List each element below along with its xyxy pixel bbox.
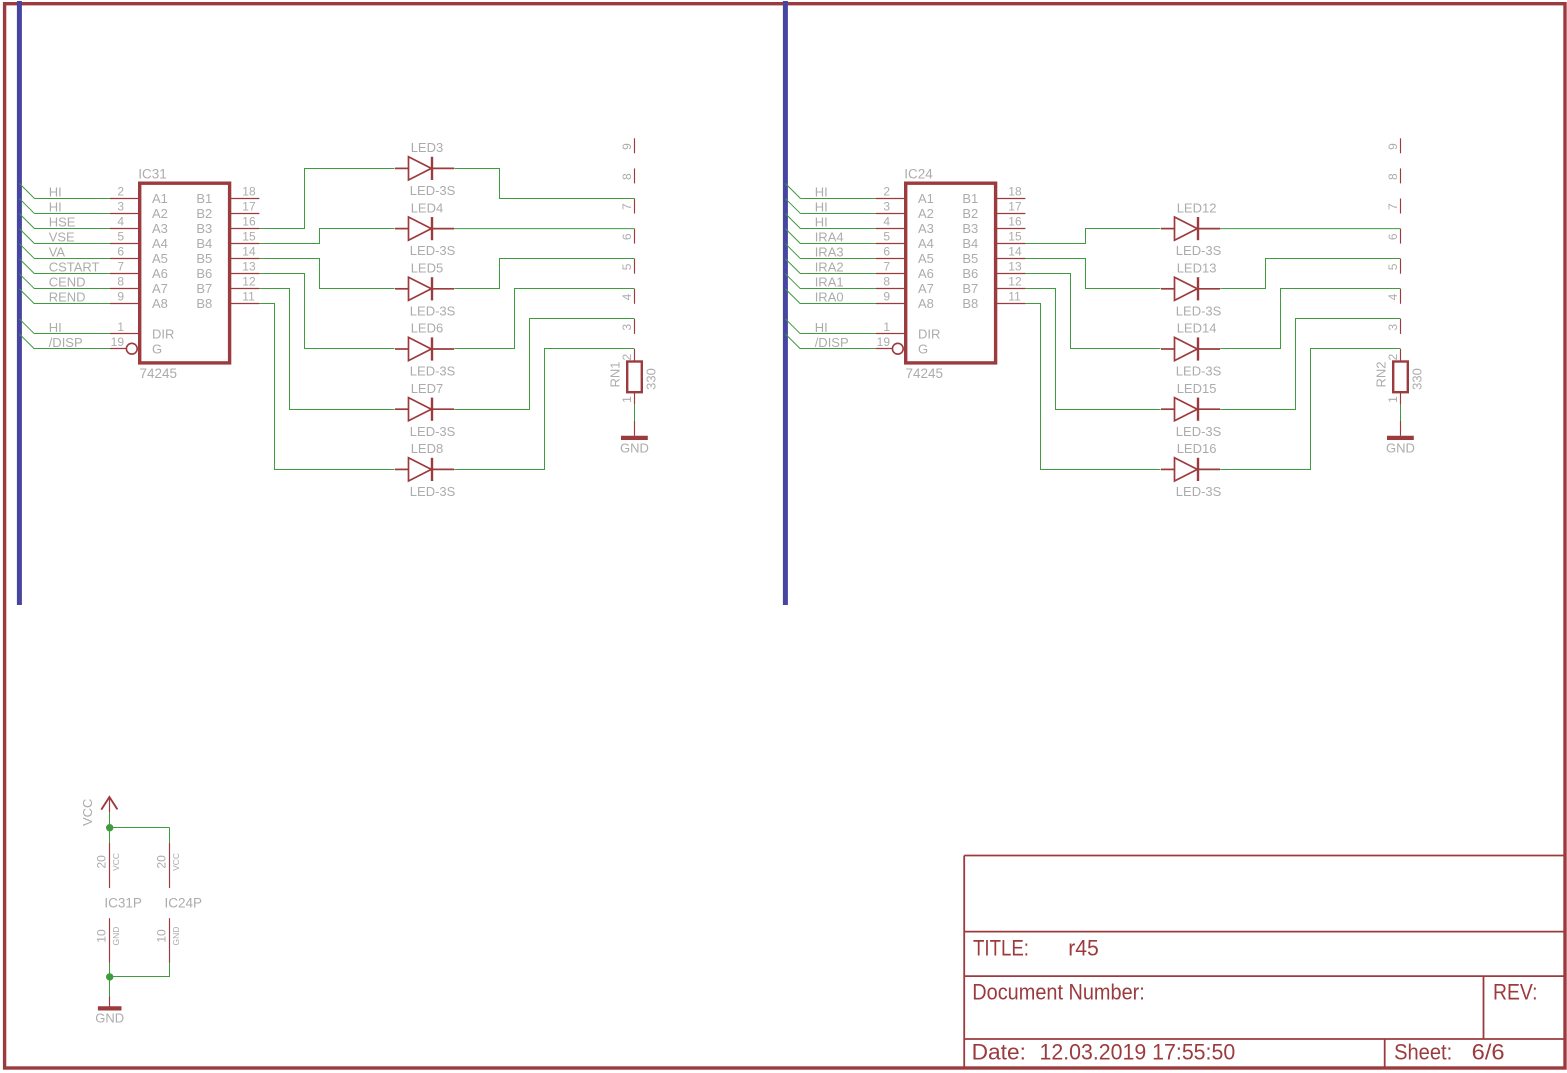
svg-text:LED13: LED13: [1177, 261, 1217, 276]
svg-text:7: 7: [1386, 203, 1400, 210]
svg-text:10: 10: [95, 929, 109, 943]
svg-text:8: 8: [883, 275, 890, 289]
svg-text:A2: A2: [152, 206, 168, 221]
svg-text:1: 1: [117, 320, 124, 334]
svg-text:HSE: HSE: [49, 214, 76, 229]
svg-text:5: 5: [117, 229, 124, 243]
svg-text:GND: GND: [111, 927, 121, 946]
svg-text:VCC: VCC: [111, 853, 121, 871]
svg-text:16: 16: [242, 214, 256, 228]
svg-text:16: 16: [1008, 214, 1022, 228]
svg-text:VSE: VSE: [49, 229, 75, 244]
svg-text:9: 9: [620, 143, 634, 150]
svg-text:5: 5: [1386, 263, 1400, 270]
svg-text:RN1: RN1: [608, 361, 623, 387]
svg-text:B3: B3: [196, 221, 212, 236]
svg-text:HI: HI: [49, 184, 62, 199]
svg-text:IRA1: IRA1: [815, 275, 844, 290]
svg-text:7: 7: [620, 203, 634, 210]
svg-text:2: 2: [883, 184, 890, 198]
svg-text:VCC: VCC: [171, 853, 181, 871]
svg-text:HI: HI: [815, 214, 828, 229]
svg-text:Document Number:: Document Number:: [972, 980, 1145, 1005]
svg-text:20: 20: [95, 855, 109, 869]
svg-text:A7: A7: [152, 281, 168, 296]
svg-text:GND: GND: [620, 441, 649, 456]
svg-text:LED-3S: LED-3S: [1176, 484, 1222, 499]
svg-text:A4: A4: [918, 236, 934, 251]
svg-text:B1: B1: [196, 191, 212, 206]
svg-text:12: 12: [242, 275, 256, 289]
svg-text:2: 2: [1386, 354, 1400, 361]
svg-text:B6: B6: [196, 266, 212, 281]
svg-text:1: 1: [883, 320, 890, 334]
svg-text:8: 8: [117, 275, 124, 289]
svg-text:A1: A1: [918, 191, 934, 206]
svg-text:REND: REND: [49, 290, 86, 305]
svg-text:5: 5: [620, 263, 634, 270]
svg-text:/DISP: /DISP: [815, 335, 849, 350]
svg-text:10: 10: [155, 929, 169, 943]
svg-text:LED4: LED4: [411, 200, 444, 215]
svg-text:IRA2: IRA2: [815, 260, 844, 275]
svg-text:3: 3: [1386, 323, 1400, 330]
svg-text:LED16: LED16: [1177, 441, 1217, 456]
svg-text:8: 8: [620, 173, 634, 180]
svg-text:B3: B3: [962, 221, 978, 236]
svg-text:VCC: VCC: [80, 799, 95, 826]
svg-text:Sheet:: Sheet:: [1394, 1040, 1452, 1065]
svg-text:CEND: CEND: [49, 275, 86, 290]
svg-text:A6: A6: [918, 266, 934, 281]
svg-text:LED7: LED7: [411, 381, 444, 396]
svg-text:LED15: LED15: [1177, 381, 1217, 396]
svg-text:1: 1: [1386, 396, 1400, 403]
svg-text:A5: A5: [152, 251, 168, 266]
svg-text:r45: r45: [1068, 935, 1099, 960]
svg-text:TITLE:: TITLE:: [973, 935, 1029, 960]
svg-text:9: 9: [883, 290, 890, 304]
svg-text:7: 7: [117, 260, 124, 274]
svg-text:11: 11: [242, 290, 255, 304]
svg-text:LED6: LED6: [411, 321, 444, 336]
svg-text:19: 19: [111, 335, 125, 349]
svg-text:LED-3S: LED-3S: [410, 303, 456, 318]
svg-text:LED8: LED8: [411, 441, 444, 456]
svg-text:3: 3: [883, 199, 890, 213]
svg-text:REV:: REV:: [1493, 980, 1538, 1005]
svg-text:14: 14: [1008, 245, 1022, 259]
svg-text:HI: HI: [49, 320, 62, 335]
svg-text:13: 13: [1008, 260, 1022, 274]
svg-text:B7: B7: [196, 281, 212, 296]
svg-text:4: 4: [1386, 293, 1400, 300]
svg-text:A8: A8: [918, 296, 934, 311]
svg-text:B2: B2: [196, 206, 212, 221]
svg-text:IC31P: IC31P: [104, 895, 142, 910]
svg-text:B5: B5: [962, 251, 978, 266]
svg-text:LED-3S: LED-3S: [410, 183, 456, 198]
svg-text:17: 17: [242, 199, 256, 213]
svg-text:13: 13: [242, 260, 256, 274]
svg-text:IRA4: IRA4: [815, 229, 844, 244]
svg-text:VA: VA: [49, 245, 66, 260]
svg-text:LED-3S: LED-3S: [410, 364, 456, 379]
svg-text:A4: A4: [152, 236, 168, 251]
svg-text:2: 2: [117, 184, 124, 198]
svg-text:12.03.2019 17:55:50: 12.03.2019 17:55:50: [1040, 1040, 1236, 1065]
svg-text:74245: 74245: [906, 366, 944, 381]
svg-text:GND: GND: [171, 927, 181, 946]
svg-text:4: 4: [883, 214, 890, 228]
svg-text:LED14: LED14: [1177, 321, 1217, 336]
svg-text:IC24P: IC24P: [165, 895, 203, 910]
svg-text:B2: B2: [962, 206, 978, 221]
svg-text:330: 330: [644, 368, 659, 390]
svg-text:RN2: RN2: [1374, 361, 1389, 387]
svg-text:G: G: [152, 341, 162, 356]
svg-text:CSTART: CSTART: [49, 260, 100, 275]
svg-text:B8: B8: [962, 296, 978, 311]
svg-text:5: 5: [883, 229, 890, 243]
svg-text:A7: A7: [918, 281, 934, 296]
svg-text:LED-3S: LED-3S: [1176, 424, 1222, 439]
svg-text:330: 330: [1410, 368, 1425, 390]
svg-text:19: 19: [877, 335, 891, 349]
svg-text:IRA3: IRA3: [815, 245, 844, 260]
svg-text:7: 7: [883, 260, 890, 274]
svg-text:LED-3S: LED-3S: [410, 424, 456, 439]
svg-text:12: 12: [1008, 275, 1022, 289]
svg-text:6: 6: [883, 245, 890, 259]
svg-text:A2: A2: [918, 206, 934, 221]
svg-text:A1: A1: [152, 191, 168, 206]
svg-text:B1: B1: [962, 191, 978, 206]
svg-text:GND: GND: [1386, 441, 1415, 456]
svg-text:HI: HI: [815, 199, 828, 214]
svg-text:GND: GND: [95, 1011, 124, 1026]
svg-text:LED12: LED12: [1177, 200, 1217, 215]
svg-text:B4: B4: [962, 236, 978, 251]
svg-text:11: 11: [1008, 290, 1021, 304]
svg-text:20: 20: [155, 855, 169, 869]
svg-text:LED5: LED5: [411, 261, 444, 276]
svg-text:A5: A5: [918, 251, 934, 266]
svg-text:LED-3S: LED-3S: [410, 243, 456, 258]
svg-text:9: 9: [117, 290, 124, 304]
svg-text:A3: A3: [152, 221, 168, 236]
svg-text:B6: B6: [962, 266, 978, 281]
svg-text:A3: A3: [918, 221, 934, 236]
svg-text:9: 9: [1386, 143, 1400, 150]
svg-text:LED-3S: LED-3S: [1176, 303, 1222, 318]
svg-text:6/6: 6/6: [1472, 1040, 1505, 1065]
svg-text:B8: B8: [196, 296, 212, 311]
svg-text:15: 15: [242, 229, 256, 243]
svg-text:HI: HI: [49, 199, 62, 214]
svg-text:4: 4: [620, 293, 634, 300]
svg-text:HI: HI: [815, 320, 828, 335]
svg-text:1: 1: [620, 396, 634, 403]
svg-text:8: 8: [1386, 173, 1400, 180]
svg-text:3: 3: [620, 323, 634, 330]
svg-text:IRA0: IRA0: [815, 290, 844, 305]
svg-text:A8: A8: [152, 296, 168, 311]
svg-text:2: 2: [620, 354, 634, 361]
svg-text:IC31: IC31: [138, 167, 167, 182]
svg-text:6: 6: [620, 233, 634, 240]
svg-text:DIR: DIR: [918, 326, 940, 341]
svg-text:LED3: LED3: [411, 140, 444, 155]
svg-text:6: 6: [117, 245, 124, 259]
svg-text:LED-3S: LED-3S: [410, 484, 456, 499]
svg-text:74245: 74245: [140, 366, 178, 381]
svg-text:6: 6: [1386, 233, 1400, 240]
svg-text:18: 18: [1008, 184, 1022, 198]
svg-text:15: 15: [1008, 229, 1022, 243]
svg-text:4: 4: [117, 214, 124, 228]
svg-text:Date:: Date:: [972, 1040, 1026, 1065]
svg-text:B7: B7: [962, 281, 978, 296]
svg-text:LED-3S: LED-3S: [1176, 243, 1222, 258]
svg-text:B5: B5: [196, 251, 212, 266]
svg-text:B4: B4: [196, 236, 212, 251]
svg-text:14: 14: [242, 245, 256, 259]
svg-text:LED-3S: LED-3S: [1176, 364, 1222, 379]
svg-text:G: G: [918, 341, 928, 356]
svg-text:/DISP: /DISP: [49, 335, 83, 350]
svg-text:A6: A6: [152, 266, 168, 281]
svg-text:17: 17: [1008, 199, 1022, 213]
svg-text:3: 3: [117, 199, 124, 213]
svg-text:HI: HI: [815, 184, 828, 199]
svg-text:DIR: DIR: [152, 326, 174, 341]
svg-text:18: 18: [242, 184, 256, 198]
svg-text:IC24: IC24: [904, 167, 933, 182]
